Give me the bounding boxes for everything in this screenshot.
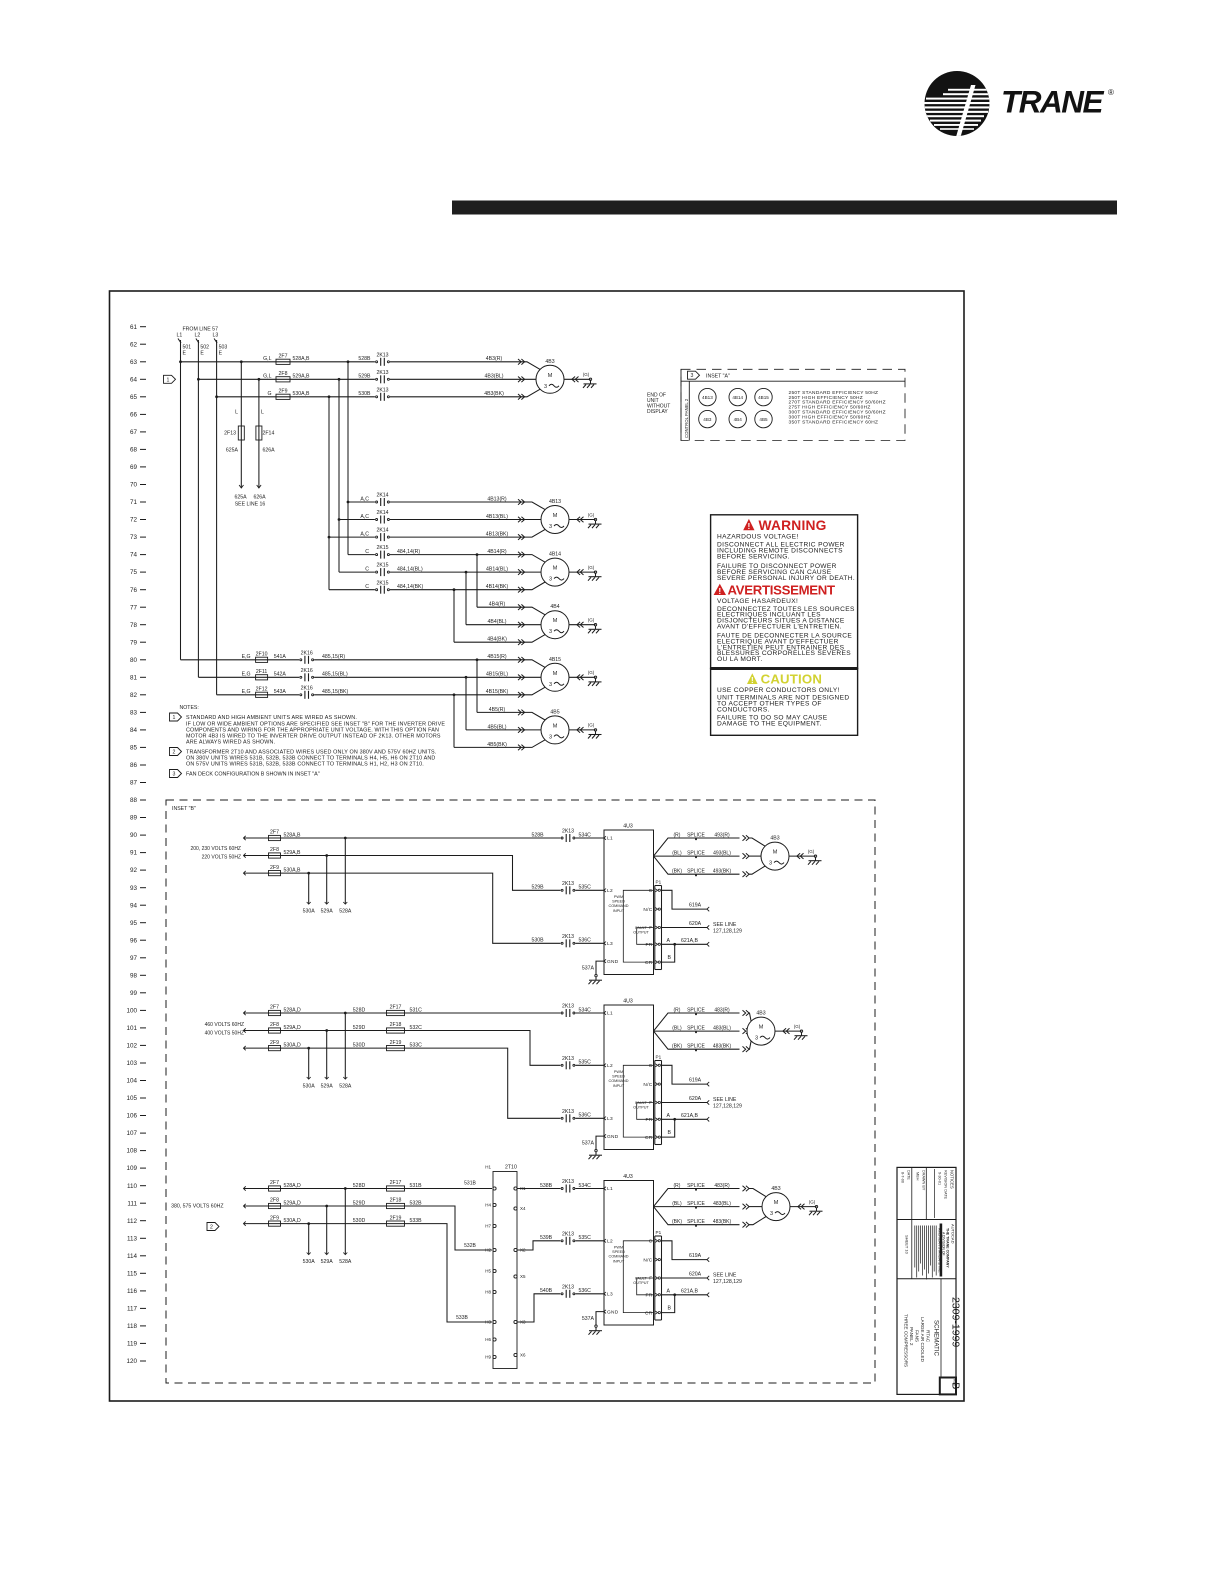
svg-text:621A,B: 621A,B <box>681 1113 699 1119</box>
svg-text:4B3: 4B3 <box>770 836 779 842</box>
svg-text:PWM: PWM <box>614 1246 623 1250</box>
label FAULT OUTPUT <box>633 926 649 935</box>
svg-text:(G): (G) <box>588 670 595 675</box>
svg-text:537A: 537A <box>582 1316 595 1322</box>
svg-text:77: 77 <box>130 604 138 611</box>
svg-text:493(BL): 493(BL) <box>713 851 731 857</box>
fuse 2F17 <box>353 1180 422 1191</box>
svg-text:SEE LINE: SEE LINE <box>713 1097 737 1103</box>
wire B (CR to A) <box>662 944 675 962</box>
wire GND 537A <box>582 961 604 975</box>
wire X3 to L3 <box>517 1294 604 1322</box>
svg-text:SPLICE: SPLICE <box>687 1026 705 1032</box>
svg-text:529D: 529D <box>353 1200 366 1206</box>
wire line 85 <box>454 740 545 748</box>
svg-text:4B4(BK): 4B4(BK) <box>487 637 507 643</box>
svg-text:2F18: 2F18 <box>390 1198 402 1204</box>
wire label 4B4(R) + splice <box>489 602 525 610</box>
svg-text:H6: H6 <box>485 1337 491 1342</box>
black header bar <box>452 201 1117 215</box>
svg-text:2F18: 2F18 <box>390 1022 402 1028</box>
svg-text:L2: L2 <box>607 1063 613 1069</box>
wire line 72 <box>339 519 541 521</box>
svg-text:2K14: 2K14 <box>376 528 388 534</box>
contact 2K13 drive row 3 <box>540 1284 591 1298</box>
fuse 2F18 <box>353 1022 422 1033</box>
svg-text:530A: 530A <box>303 909 316 915</box>
svg-text:NOTES:: NOTES: <box>180 705 199 711</box>
svg-text:4B13(BK): 4B13(BK) <box>486 532 509 538</box>
svg-text:(BL): (BL) <box>672 1026 682 1032</box>
wire line 78 <box>466 624 541 626</box>
svg-text:SPLICE: SPLICE <box>687 1201 705 1207</box>
contact 2K13 line 65 <box>358 387 390 401</box>
svg-text:2F7: 2F7 <box>270 1005 279 1011</box>
svg-text:WARNING: WARNING <box>759 518 827 533</box>
svg-text:2F8: 2F8 <box>270 847 279 853</box>
fuse 2F19 <box>353 1040 422 1051</box>
svg-text:!: ! <box>718 586 721 596</box>
svg-text:SPLICE: SPLICE <box>687 851 705 857</box>
svg-text:200, 230 VOLTS 60HZ: 200, 230 VOLTS 60HZ <box>191 846 242 852</box>
wire label 4B5(R) + splice <box>489 707 525 715</box>
svg-text:9-30-01: 9-30-01 <box>938 1172 942 1185</box>
fuse 2F13 drop <box>224 362 244 488</box>
svg-text:SEE LINE: SEE LINE <box>713 1273 737 1279</box>
svg-text:2K16: 2K16 <box>301 668 313 674</box>
wire drop to line 85 <box>453 695 455 748</box>
fuse 2F7 <box>263 354 310 365</box>
contact 2K16 line 80 <box>299 650 345 664</box>
wire drop to line 79 <box>453 590 455 643</box>
svg-text:529A,D: 529A,D <box>284 1200 302 1206</box>
svg-text:GND: GND <box>607 1309 619 1315</box>
ground at drive motor <box>775 1024 808 1040</box>
svg-text:DRAWN BY: DRAWN BY <box>922 1170 926 1191</box>
wire line 74 <box>348 555 545 563</box>
title block fine print smudge <box>940 1224 943 1277</box>
wire input phase 1 <box>244 1188 493 1190</box>
output labels + splices <box>672 1183 749 1228</box>
svg-text:530B: 530B <box>358 391 371 397</box>
svg-text:2F7: 2F7 <box>279 354 288 360</box>
svg-text:2K13: 2K13 <box>562 1231 574 1237</box>
svg-text:528A: 528A <box>339 1259 352 1265</box>
svg-text:!: ! <box>747 521 750 531</box>
svg-text:3: 3 <box>691 373 694 379</box>
svg-text:535C: 535C <box>579 1235 592 1241</box>
svg-text:100: 100 <box>126 1008 137 1015</box>
svg-text:G,L: G,L <box>263 356 271 362</box>
svg-text:M: M <box>553 566 558 572</box>
svg-text:3: 3 <box>549 577 552 583</box>
svg-text:82: 82 <box>130 692 138 699</box>
svg-text:530B: 530B <box>531 938 544 944</box>
svg-text:107: 107 <box>126 1130 137 1137</box>
svg-text:528A,D: 528A,D <box>284 1007 302 1013</box>
svg-text:73: 73 <box>130 534 138 541</box>
svg-text:533C: 533C <box>410 1043 423 1049</box>
svg-text:(G): (G) <box>808 849 815 854</box>
svg-text:62: 62 <box>130 341 138 348</box>
svg-text:4B5(BL): 4B5(BL) <box>487 724 506 730</box>
svg-text:FAN DECK CONFIGURATION B SHOWN: FAN DECK CONFIGURATION B SHOWN IN INSET … <box>186 772 320 778</box>
svg-text:535C: 535C <box>579 885 592 891</box>
svg-text:C: C <box>365 549 369 555</box>
svg-text:1: 1 <box>167 377 170 383</box>
wire B (CR to A) <box>662 1295 675 1313</box>
svg-text:529A: 529A <box>321 1259 334 1265</box>
svg-text:SEVERE PERSONAL INJURY OR DEAT: SEVERE PERSONAL INJURY OR DEATH. <box>717 575 855 582</box>
svg-text:SPLICE: SPLICE <box>687 1219 705 1225</box>
svg-text:350T STANDARD EFFICIENCY 60HZ: 350T STANDARD EFFICIENCY 60HZ <box>789 420 879 426</box>
svg-text:493(BK): 493(BK) <box>713 869 732 875</box>
svg-text:AUTOCAD: AUTOCAD <box>951 1224 956 1244</box>
svg-text:B: B <box>668 955 672 961</box>
wire line 64 <box>198 378 536 380</box>
svg-text:CR: CR <box>645 1135 653 1141</box>
wire 619A <box>662 890 710 911</box>
svg-text:NOTICES: NOTICES <box>950 1170 955 1189</box>
svg-text:USE COPPER CONDUCTORS ONLY!: USE COPPER CONDUCTORS ONLY! <box>717 687 840 694</box>
svg-text:(G): (G) <box>794 1024 801 1029</box>
fuse 2F8 <box>263 371 310 382</box>
svg-text:3: 3 <box>549 682 552 688</box>
ground at 4U3 <box>589 1325 603 1335</box>
label END OF UNIT WITHOUT DISPLAY <box>647 392 670 415</box>
svg-text:E,G: E,G <box>242 654 251 660</box>
svg-text:4B13(BL): 4B13(BL) <box>486 514 508 520</box>
svg-text:2F9: 2F9 <box>270 865 279 871</box>
svg-text:2K13: 2K13 <box>376 370 388 376</box>
svg-text:RTAC: RTAC <box>926 1330 931 1343</box>
contact 2K13 drive row 2 <box>560 1056 591 1070</box>
svg-text:SEE LINE: SEE LINE <box>713 922 737 928</box>
svg-text:4B14(BK): 4B14(BK) <box>486 584 509 590</box>
inverter drive U 4U3 <box>604 999 654 1150</box>
svg-text:68: 68 <box>130 447 138 454</box>
svg-text:(BK): (BK) <box>672 1219 682 1225</box>
svg-text:96: 96 <box>130 937 138 944</box>
svg-text:400 VOLTS 50HZ: 400 VOLTS 50HZ <box>205 1031 244 1037</box>
svg-text:OUTPUT: OUTPUT <box>633 1106 649 1110</box>
wire line 73 <box>329 529 545 537</box>
svg-text:DATE: DATE <box>907 1170 911 1180</box>
svg-text:4B3(R): 4B3(R) <box>486 356 503 362</box>
fuse 2F8 <box>269 1022 281 1033</box>
FAULT bracket wire <box>637 928 654 945</box>
svg-text:533B: 533B <box>456 1315 468 1321</box>
svg-text:FANS: FANS <box>915 1330 920 1342</box>
svg-text:CAUTION: CAUTION <box>761 672 822 687</box>
svg-text:536C: 536C <box>579 938 592 944</box>
svg-text:528A: 528A <box>339 1084 352 1090</box>
output labels + splices <box>672 832 749 877</box>
svg-text:621A,B: 621A,B <box>681 938 699 944</box>
svg-text:H8: H8 <box>485 1290 491 1295</box>
wire 621A,B <box>662 1288 710 1297</box>
motor feed wires <box>749 838 766 874</box>
fuse 2F7 <box>269 1180 281 1191</box>
svg-text:528B: 528B <box>358 356 371 362</box>
wire label 4B4(BL) + splice <box>487 619 524 627</box>
svg-text:626A: 626A <box>263 448 276 454</box>
motor 4B14 (inset A) <box>729 388 746 405</box>
fuse 2F19 <box>353 1215 422 1226</box>
wire 619A <box>662 1241 710 1262</box>
svg-text:COMMAND: COMMAND <box>608 1079 628 1083</box>
svg-text:A: A <box>667 938 671 944</box>
4U3 pin labels <box>604 1011 619 1140</box>
svg-text:2K13: 2K13 <box>562 1284 574 1290</box>
svg-text:3: 3 <box>549 734 552 740</box>
fuse 2F14 drop <box>256 379 275 488</box>
contact 2K15 line 76 <box>365 580 390 594</box>
motor 4B5 (inset A) <box>755 410 772 427</box>
svg-text:G: G <box>267 391 271 397</box>
svg-text:3: 3 <box>173 772 176 778</box>
svg-text:3: 3 <box>770 1211 773 1217</box>
4U3 pin labels <box>604 836 619 965</box>
svg-text:1: 1 <box>173 715 176 721</box>
svg-text:534C: 534C <box>579 1183 592 1189</box>
wire label 4B5(BL) + splice <box>487 724 524 732</box>
svg-text:529A,B: 529A,B <box>284 850 302 856</box>
motor 4B3 (drive output) <box>747 1011 775 1046</box>
svg-text:L: L <box>235 410 238 416</box>
svg-text:127,128,129: 127,128,129 <box>713 1103 742 1109</box>
contact 2K13 drive row 2 <box>540 1231 591 1245</box>
svg-text:116: 116 <box>127 1288 138 1295</box>
svg-text:E,G: E,G <box>242 689 251 695</box>
svg-text:C: C <box>649 1239 653 1245</box>
svg-text:2F8: 2F8 <box>270 1198 279 1204</box>
wire label 4B4(BK) + splice <box>487 637 524 645</box>
svg-text:92: 92 <box>130 867 138 874</box>
svg-text:FR: FR <box>646 1117 653 1123</box>
svg-text:531B: 531B <box>410 1183 423 1189</box>
svg-text:484,14(BL): 484,14(BL) <box>397 567 423 573</box>
fuse 2F9 <box>267 389 310 400</box>
wire label 4B15 + splice <box>486 689 525 697</box>
svg-text:L3: L3 <box>213 333 219 339</box>
svg-text:2F9: 2F9 <box>270 1215 279 1221</box>
svg-text:L: L <box>261 410 264 416</box>
wire input phase 1 <box>244 837 605 839</box>
svg-text:L1: L1 <box>607 836 613 842</box>
label voltage block1 <box>191 846 242 861</box>
svg-text:OU LA MORT.: OU LA MORT. <box>717 656 763 663</box>
svg-text:83: 83 <box>130 710 138 717</box>
fuse 2F17 <box>353 1005 422 1016</box>
svg-text:SCHEMATIC: SCHEMATIC <box>933 1320 940 1357</box>
svg-text:4B13(R): 4B13(R) <box>487 496 507 502</box>
svg-text:H2: H2 <box>485 1248 491 1253</box>
fuse 2F18 <box>353 1198 422 1209</box>
contact 2K15 line 74 <box>365 545 390 559</box>
svg-text:(G): (G) <box>588 565 595 570</box>
svg-text:99: 99 <box>130 990 138 997</box>
P1 pins C N/C F FR CR <box>643 1239 660 1317</box>
revision cell B <box>940 1378 962 1395</box>
svg-text:534C: 534C <box>579 832 592 838</box>
svg-text:529D: 529D <box>353 1025 366 1031</box>
contact 2K13 drive row 1 <box>560 1004 591 1018</box>
svg-text:110: 110 <box>127 1183 138 1190</box>
svg-text:3: 3 <box>549 524 552 530</box>
svg-text:®: ® <box>1108 88 1114 97</box>
svg-text:2K13: 2K13 <box>376 387 388 393</box>
svg-text:529A,B: 529A,B <box>293 374 311 380</box>
svg-text:OUTPUT: OUTPUT <box>633 1281 649 1285</box>
svg-text:M: M <box>773 850 778 856</box>
svg-text:M: M <box>553 671 558 677</box>
svg-text:SPLICE: SPLICE <box>687 869 705 875</box>
svg-text:528A: 528A <box>339 909 352 915</box>
note 1 <box>170 713 182 721</box>
svg-text:81: 81 <box>130 674 138 681</box>
svg-text:(R): (R) <box>674 1183 681 1189</box>
svg-text:B: B <box>668 1306 672 1312</box>
motor 4B3 (drive output) <box>762 1186 790 1221</box>
wire label 4B14(BL) + splice <box>486 567 525 575</box>
svg-text:529A: 529A <box>321 1084 334 1090</box>
svg-text:530A,D: 530A,D <box>284 1218 302 1224</box>
svg-text:H7: H7 <box>485 1224 491 1229</box>
svg-text:2F9: 2F9 <box>270 1040 279 1046</box>
label PWM SPEED COMMAND INPUT <box>608 1246 628 1264</box>
svg-text:!: ! <box>751 676 754 685</box>
svg-text:528A,B: 528A,B <box>293 356 311 362</box>
svg-text:621A,B: 621A,B <box>681 1288 699 1294</box>
svg-text:626A: 626A <box>253 495 266 501</box>
svg-text:C: C <box>649 1063 653 1069</box>
motor 4B3 (drive output) <box>761 836 789 871</box>
2T10 X terminals <box>514 1186 526 1358</box>
tap stubs 530A 529A 528A <box>303 1187 352 1265</box>
svg-text:ON 575V UNITS WIRES 531B, 532B: ON 575V UNITS WIRES 531B, 532B, 533B CON… <box>186 762 424 768</box>
svg-text:538B: 538B <box>540 1183 553 1189</box>
svg-text:(G): (G) <box>588 618 595 623</box>
svg-text:L2: L2 <box>607 888 613 894</box>
svg-text:127,128,129: 127,128,129 <box>713 1279 742 1285</box>
svg-text:2F11: 2F11 <box>256 669 268 675</box>
FAULT bracket wire <box>637 1278 654 1295</box>
wire input phase 3 <box>244 873 605 943</box>
wire line 83 <box>477 712 545 720</box>
svg-text:540B: 540B <box>540 1288 553 1294</box>
label PWM SPEED COMMAND INPUT <box>608 895 628 913</box>
svg-text:71: 71 <box>130 499 138 506</box>
svg-text:536C: 536C <box>579 1288 592 1294</box>
svg-text:F: F <box>649 1100 652 1106</box>
svg-text:531C: 531C <box>410 1007 423 1013</box>
svg-text:127,128,129: 127,128,129 <box>713 928 742 934</box>
motor feed wires <box>747 1013 751 1049</box>
svg-text:M: M <box>548 373 553 379</box>
svg-text:SPLICE: SPLICE <box>687 832 705 838</box>
svg-text:G,L: G,L <box>263 374 271 380</box>
fuse 2F9 <box>269 1215 281 1226</box>
warning text EN <box>717 534 855 582</box>
wire input phase 2 <box>244 1206 493 1250</box>
fuse 2F11 <box>242 669 287 680</box>
ladder line numbers 61-120 <box>126 324 146 1365</box>
svg-text:4B15(R): 4B15(R) <box>487 654 507 660</box>
svg-text:FR: FR <box>646 942 653 948</box>
svg-text:380, 575 VOLTS 60HZ: 380, 575 VOLTS 60HZ <box>171 1204 223 1210</box>
svg-text:4B13: 4B13 <box>549 499 561 505</box>
svg-text:2F7: 2F7 <box>270 1180 279 1186</box>
svg-text:89: 89 <box>130 815 138 822</box>
svg-text:P1: P1 <box>656 880 662 885</box>
svg-text:528A,D: 528A,D <box>284 1183 302 1189</box>
svg-text:VOLTAGE HASARDEUX!: VOLTAGE HASARDEUX! <box>717 598 798 605</box>
svg-text:L1: L1 <box>607 1011 613 1017</box>
svg-text:530A: 530A <box>303 1084 316 1090</box>
svg-text:620A: 620A <box>689 921 702 927</box>
wire line 81 <box>198 676 541 678</box>
TRANE wordmark <box>1001 84 1114 120</box>
wire labels 531B 532B 533B <box>456 1181 476 1322</box>
svg-text:85: 85 <box>130 745 138 752</box>
fuse 2F10 <box>242 652 287 663</box>
caution label box <box>711 669 858 736</box>
svg-text:70: 70 <box>130 482 138 489</box>
wire input phase 3 <box>244 1224 493 1322</box>
svg-text:2F17: 2F17 <box>390 1180 402 1186</box>
fuse 2F8 <box>269 847 281 858</box>
svg-text:ON 380V UNITS WIRES 531B, 532B: ON 380V UNITS WIRES 531B, 532B, 533B CON… <box>186 756 435 762</box>
ground at drive motor <box>789 849 822 865</box>
svg-text:2F7: 2F7 <box>270 830 279 836</box>
P1 pins C N/C F FR CR <box>643 1063 660 1141</box>
svg-text:3: 3 <box>769 861 772 867</box>
svg-text:N/C: N/C <box>643 1257 652 1263</box>
svg-text:531B: 531B <box>464 1181 476 1187</box>
svg-text:537A: 537A <box>582 966 595 972</box>
output labels + splices <box>672 1007 749 1052</box>
svg-text:L1: L1 <box>607 1186 613 1192</box>
svg-text:DAMAGE TO THE EQUIPMENT.: DAMAGE TO THE EQUIPMENT. <box>717 720 822 727</box>
svg-text:485,15(BL): 485,15(BL) <box>322 672 348 678</box>
svg-text:2309-1999: 2309-1999 <box>950 1297 962 1347</box>
svg-text:ARE ALWAYS WIRED AS SHOWN.: ARE ALWAYS WIRED AS SHOWN. <box>186 740 275 746</box>
svg-text:SPLICE: SPLICE <box>687 1007 705 1013</box>
motor 4B15 <box>541 657 569 692</box>
title block small cells text <box>901 1169 956 1273</box>
warning label box <box>711 515 858 669</box>
svg-text:2K13: 2K13 <box>562 1004 574 1010</box>
PWM bracket wire <box>623 890 653 962</box>
connector P1 <box>655 1230 662 1320</box>
wire 621A,B <box>662 1113 710 1122</box>
svg-text:L2: L2 <box>607 1239 613 1245</box>
svg-text:4B15: 4B15 <box>549 657 561 663</box>
svg-text:4B14: 4B14 <box>549 552 561 558</box>
svg-text:P1: P1 <box>656 1230 662 1235</box>
svg-text:625A: 625A <box>226 448 239 454</box>
wire label 4B3(BL) + splice <box>484 374 524 382</box>
wire label 4B13(BL) + splice <box>486 514 525 522</box>
svg-text:115: 115 <box>127 1270 138 1277</box>
svg-text:CR: CR <box>645 1310 653 1316</box>
wire line 71 <box>348 502 545 510</box>
svg-text:2K15: 2K15 <box>376 545 388 551</box>
svg-text:DISPLAY: DISPLAY <box>647 409 668 415</box>
svg-text:2K15: 2K15 <box>376 580 388 586</box>
svg-text:72: 72 <box>130 517 138 524</box>
